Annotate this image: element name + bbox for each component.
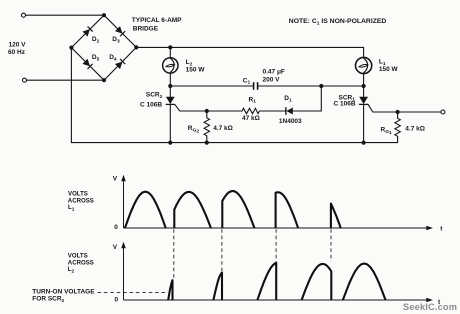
resistor RG2 [204, 111, 209, 143]
diode D2 [82, 26, 92, 36]
svg-text:47 kΩ: 47 kΩ [242, 115, 260, 122]
svg-text:TURN-ON VOLTAGE: TURN-ON VOLTAGE [32, 289, 95, 296]
wire gate to terminal G [398, 111, 441, 113]
wire bridge edge left-top [71, 15, 104, 47]
waveform L1 hump 2 [174, 192, 211, 228]
svg-text:1N4003: 1N4003 [279, 118, 302, 125]
node bridge right [134, 45, 138, 49]
lamp L2 [163, 58, 178, 73]
diode D5 [82, 59, 92, 69]
diode D3 [115, 26, 125, 36]
node L2 top [168, 45, 172, 49]
waveform L2 hump 4 [302, 264, 332, 300]
wire DC minus: left node down to bottom rail [70, 48, 72, 143]
wire D1 anode to C1 right node [293, 86, 322, 111]
diode D1 [286, 107, 293, 115]
waveform plot 1 axes [124, 179, 429, 228]
SCR1 [359, 97, 368, 105]
svg-text:ACROSS: ACROSS [68, 259, 94, 266]
dashed connector 4 [330, 229, 332, 261]
node bridge bottom [102, 78, 106, 82]
waveform L2 hump 1 [168, 280, 172, 300]
terminal AC bottom [23, 78, 27, 82]
wire SCR1 gate [368, 105, 397, 112]
wire SCR1 cathode to rail [363, 104, 365, 142]
waveform L1 hump 5 [331, 204, 341, 229]
terminal AC top [22, 13, 26, 17]
waveform L1 hump 1 [125, 192, 166, 229]
wire C1 line right [258, 85, 364, 87]
wire bridge edge top-right [104, 15, 136, 47]
svg-text:120 V: 120 V [9, 42, 27, 49]
svg-text:VOLTS: VOLTS [68, 190, 88, 197]
node D1 to C1 line [319, 84, 323, 88]
node SCR2 cathode rail [168, 141, 172, 145]
svg-text:C 106B: C 106B [334, 101, 356, 108]
dashed connector 1 [173, 229, 175, 279]
svg-text:150 W: 150 W [379, 66, 399, 73]
node RG2 top [205, 109, 209, 113]
axis1 t arrowhead [426, 226, 433, 231]
waveform L1 hump 3 [222, 191, 254, 228]
node bridge left [69, 46, 73, 50]
node L2 bottom / C1 left [168, 84, 172, 88]
node RG2 rail [205, 141, 209, 145]
wire SCR2 anode [169, 86, 171, 97]
resistor RG1 [395, 112, 400, 143]
wire SCR2 cathode to rail [169, 104, 171, 142]
svg-text:150 W: 150 W [186, 67, 206, 74]
svg-text:60 Hz: 60 Hz [8, 49, 26, 56]
waveform L1 humps [125, 191, 341, 228]
svg-text:SeekIC.com: SeekIC.com [403, 302, 457, 312]
node L1 bottom / C1 right [362, 84, 366, 88]
svg-text:200 V: 200 V [263, 77, 281, 84]
svg-text:0.47 μF: 0.47 μF [263, 68, 285, 75]
terminal gate SCR1 [441, 110, 445, 114]
svg-text:4.7 kΩ: 4.7 kΩ [405, 126, 425, 133]
wire AC top to bridge top node [26, 14, 104, 16]
svg-text:4.7 kΩ: 4.7 kΩ [213, 125, 233, 132]
wire bridge edge bottom-right [104, 47, 136, 80]
svg-text:V: V [113, 175, 118, 182]
wire L1 to SCR1 anode [363, 74, 365, 97]
node RG1 top [396, 110, 400, 114]
svg-text:0: 0 [115, 297, 119, 304]
node bridge top [102, 13, 106, 17]
wire R1 to D1 [260, 110, 286, 112]
svg-text:TYPICAL 6-AMP: TYPICAL 6-AMP [132, 17, 182, 24]
waveform plot 2 axes [124, 246, 429, 300]
dashed turn-on level [98, 292, 169, 294]
waveform L2 hump 3 [257, 263, 276, 300]
axis2 t arrowhead [426, 298, 433, 303]
SCR2 [166, 97, 175, 105]
wire SCR2 gate [175, 105, 207, 111]
waveform L1 hump 4 [276, 192, 299, 228]
wire bottom rail [71, 142, 397, 144]
waveform L2 hump 5 [343, 264, 386, 301]
wire AC bottom to bridge bottom node [27, 79, 104, 81]
wire bridge edge left-bottom [71, 48, 104, 81]
lamp L1 [356, 57, 372, 73]
resistor R1 [242, 108, 260, 113]
capacitor C1 [254, 82, 258, 90]
axis1 V arrowhead [121, 175, 126, 182]
node SCR1 cathode rail [362, 141, 366, 145]
diode D4 [115, 59, 125, 69]
svg-text:0: 0 [114, 224, 118, 231]
waveform L2 hump 2 [213, 273, 222, 301]
wire C1 line left [170, 85, 253, 87]
wire gate line to R1 [207, 110, 242, 112]
svg-text:BRIDGE: BRIDGE [133, 25, 159, 32]
dashed connector 3 [275, 229, 277, 262]
wire L1 branch drop [363, 47, 365, 57]
axis2 V arrowhead [121, 242, 126, 249]
svg-text:V: V [113, 244, 118, 251]
waveform L2 humps [168, 263, 385, 300]
wire top rail from bridge right node [136, 46, 363, 48]
wire L2 branch top [169, 47, 171, 57]
wire L2 to C1 node [169, 73, 171, 86]
dashed connector 2 [221, 229, 223, 271]
svg-text:C 106B: C 106B [140, 101, 162, 108]
